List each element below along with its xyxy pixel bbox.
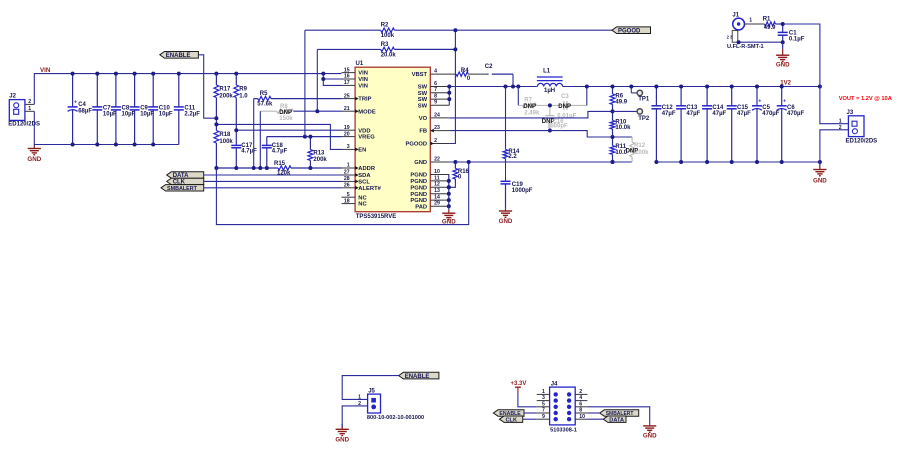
capacitor C16 DNP <box>542 105 568 130</box>
wire ADDR ground rail <box>216 167 341 169</box>
svg-text:GND: GND <box>335 437 349 444</box>
resistor R9 <box>234 74 248 131</box>
ground input GND <box>27 145 41 163</box>
svg-text:23: 23 <box>434 125 440 131</box>
svg-text:68µF: 68µF <box>78 109 92 115</box>
svg-text:16: 16 <box>344 74 350 80</box>
wire J1 shield <box>739 41 783 43</box>
svg-text:SW: SW <box>418 85 428 91</box>
svg-text:L1: L1 <box>543 68 551 74</box>
R14 to C19 link <box>505 159 507 182</box>
svg-text:VOUT = 1.2V @ 10A: VOUT = 1.2V @ 10A <box>839 96 892 102</box>
svg-text:9: 9 <box>434 100 437 106</box>
wire EN node segment <box>215 118 217 124</box>
junction TP1 joint <box>629 85 633 89</box>
svg-text:2.2µF: 2.2µF <box>184 112 200 118</box>
svg-text:ED120/2DS: ED120/2DS <box>8 121 40 127</box>
wire R5 left to ground rail <box>253 99 255 168</box>
wire VIN pin16 <box>323 78 341 80</box>
junction output gnd joints <box>654 160 822 164</box>
svg-text:GND: GND <box>442 218 456 225</box>
svg-text:ED120/2DS: ED120/2DS <box>846 138 878 144</box>
svg-text:800-10-002-10-001000: 800-10-002-10-001000 <box>367 415 424 421</box>
svg-text:R6: R6 <box>615 93 623 99</box>
wire J1 pin1 <box>745 23 765 25</box>
svg-text:C4: C4 <box>78 102 86 108</box>
capacitor C10 <box>148 74 173 145</box>
wire SDA wire <box>204 174 342 176</box>
svg-text:DATA: DATA <box>609 417 624 423</box>
power +3.3V <box>511 381 527 393</box>
junction ground rail junctions <box>214 166 312 170</box>
svg-text:2: 2 <box>434 138 437 144</box>
resistor R16 <box>453 162 470 183</box>
svg-text:17: 17 <box>344 80 350 86</box>
svg-text:TRIP: TRIP <box>358 97 371 103</box>
U1 right pin names <box>406 72 428 210</box>
svg-text:28: 28 <box>344 176 350 182</box>
svg-text:200k: 200k <box>313 157 327 163</box>
capacitor C12 <box>651 87 675 163</box>
svg-text:VREG: VREG <box>358 135 375 141</box>
wire VIN pins tap <box>323 74 341 86</box>
resistor R12 DNP <box>613 137 650 162</box>
net label SMBALERT J4 <box>600 410 639 417</box>
svg-text:20: 20 <box>344 131 350 137</box>
svg-text:100k: 100k <box>635 150 649 156</box>
svg-text:1µH: 1µH <box>544 88 555 94</box>
svg-text:27: 27 <box>344 170 350 176</box>
net label CLK <box>167 178 204 185</box>
wire left ground return <box>216 162 468 225</box>
junction VIN rail junctions <box>71 72 326 76</box>
svg-text:SCL: SCL <box>358 180 370 186</box>
svg-text:C2: C2 <box>485 64 493 70</box>
svg-text:R9: R9 <box>239 86 247 92</box>
wire output gnd down <box>819 162 821 168</box>
wire VREG line <box>267 136 342 138</box>
svg-text:49.9: 49.9 <box>615 100 627 106</box>
wire ENABLE to pin7 <box>524 412 537 414</box>
svg-text:C3: C3 <box>561 94 569 100</box>
wire J2 pin1 to ground rail <box>33 111 35 144</box>
svg-text:ALERT#: ALERT# <box>358 186 381 192</box>
svg-text:47µF: 47µF <box>686 111 700 117</box>
U1 left pin names <box>358 71 381 208</box>
svg-text:J4: J4 <box>551 381 558 387</box>
capacitor C1 <box>778 24 805 43</box>
svg-text:MODE: MODE <box>358 109 376 115</box>
wire ALERT wire <box>204 187 342 189</box>
svg-text:R3: R3 <box>381 42 389 48</box>
svg-text:4.7µF: 4.7µF <box>272 149 288 155</box>
svg-text:VDD: VDD <box>358 128 370 134</box>
svg-text:21: 21 <box>344 106 350 112</box>
svg-text:VO: VO <box>419 116 428 122</box>
wire ENABLE to J5 <box>342 376 399 400</box>
svg-text:5: 5 <box>542 401 545 407</box>
svg-text:47µF: 47µF <box>712 111 726 117</box>
wire CLK to pin9 <box>523 418 537 420</box>
wire PGOOD vertical <box>449 30 455 143</box>
svg-text:TP2: TP2 <box>638 116 650 122</box>
net label SMBALERT <box>161 185 204 192</box>
svg-text:7: 7 <box>542 408 545 414</box>
svg-text:22: 22 <box>434 156 440 162</box>
net label ENABLE J5 <box>399 372 439 380</box>
wire L1 to out <box>563 86 820 88</box>
svg-text:100k: 100k <box>381 33 395 39</box>
capacitor C6 <box>777 87 805 163</box>
inductor L1 <box>537 68 563 94</box>
junction output rail joints <box>611 85 822 89</box>
capacitor C4 <box>68 74 93 145</box>
wire VO wire <box>449 111 612 118</box>
resistor R13 <box>308 137 327 168</box>
svg-text:PGOOD: PGOOD <box>618 28 641 34</box>
U1 right pin stubs <box>430 87 449 207</box>
junction C16 joints <box>548 103 552 132</box>
svg-text:PGND: PGND <box>410 173 427 179</box>
svg-text:200k: 200k <box>219 93 233 99</box>
svg-text:NC: NC <box>358 202 367 208</box>
resistor R1 <box>763 16 783 31</box>
connector J1 UFL <box>727 12 764 50</box>
junction J1 joints <box>737 22 785 44</box>
capacitor C14 <box>702 87 726 163</box>
resistor R10 <box>610 111 631 137</box>
wire ENABLE to EN divider <box>198 55 216 118</box>
svg-text:57.6k: 57.6k <box>257 101 273 107</box>
svg-text:EN: EN <box>358 148 366 154</box>
svg-text:PGND: PGND <box>410 192 427 198</box>
svg-text:R4: R4 <box>461 68 469 74</box>
svg-text:18: 18 <box>344 198 350 204</box>
ground J4 GND <box>643 425 657 439</box>
svg-text:TPS53915RVE: TPS53915RVE <box>356 214 397 220</box>
wire SW to R14 <box>505 87 507 149</box>
svg-text:GND: GND <box>27 156 41 163</box>
svg-text:49.9: 49.9 <box>764 25 776 31</box>
wire VOUT to J3 pin1 <box>820 87 849 124</box>
resistor R6 <box>610 87 628 112</box>
wire pin6 to gnd <box>587 407 649 425</box>
connector J2 <box>8 94 40 128</box>
ground C19 GND <box>499 206 513 225</box>
svg-text:GND: GND <box>643 432 657 439</box>
svg-text:FB: FB <box>419 129 427 135</box>
svg-text:7: 7 <box>434 87 437 93</box>
capacitor C18 <box>262 137 288 168</box>
svg-text:1000pF: 1000pF <box>512 188 533 194</box>
junction PGND joints <box>447 179 451 208</box>
svg-text:DNP: DNP <box>523 104 536 110</box>
svg-text:20.0k: 20.0k <box>381 52 397 58</box>
capacitor C13 <box>676 87 700 163</box>
wire VIN rail <box>34 74 341 105</box>
svg-text:3: 3 <box>347 144 350 150</box>
text VOUT note <box>839 96 892 102</box>
svg-text:SW: SW <box>418 91 428 97</box>
svg-text:SDA: SDA <box>358 173 371 179</box>
net label ENABLE top <box>160 52 199 60</box>
svg-text:VIN: VIN <box>358 71 368 77</box>
ground J5 GND <box>335 424 349 444</box>
svg-text:GND: GND <box>499 218 513 225</box>
svg-text:26: 26 <box>344 183 350 189</box>
svg-text:GND: GND <box>776 61 790 68</box>
svg-text:2.2: 2.2 <box>508 154 517 160</box>
wire R3 line left <box>317 48 380 50</box>
svg-text:+3.3V: +3.3V <box>511 381 527 387</box>
svg-text:29: 29 <box>434 201 440 207</box>
svg-text:3: 3 <box>542 395 545 401</box>
wire pin8 to SMBALERT <box>587 412 599 414</box>
svg-text:R5: R5 <box>260 91 268 97</box>
svg-text:5: 5 <box>347 192 350 198</box>
svg-text:10.0k: 10.0k <box>615 125 631 131</box>
svg-text:10µF: 10µF <box>140 112 154 118</box>
svg-text:10µF: 10µF <box>122 112 136 118</box>
resistor R4 <box>430 68 486 82</box>
svg-text:SW: SW <box>418 103 428 109</box>
svg-text:1: 1 <box>749 18 752 24</box>
capacitor C9 <box>130 74 155 145</box>
wire SW rail <box>449 86 537 88</box>
wire SW bus vertical <box>448 87 450 106</box>
resistor R11 <box>610 137 628 162</box>
svg-text:TP1: TP1 <box>638 97 650 103</box>
wire R1 to VOUT <box>783 24 820 87</box>
junction divider joints <box>611 109 615 164</box>
svg-text:+: + <box>758 98 761 104</box>
svg-text:R18: R18 <box>219 132 231 138</box>
svg-text:1: 1 <box>28 106 31 112</box>
svg-text:1: 1 <box>358 394 361 400</box>
svg-text:PAD: PAD <box>415 204 427 210</box>
wire output gnd to J3 pin2 <box>820 130 849 162</box>
pin direction arrows <box>355 97 434 190</box>
svg-text:10µF: 10µF <box>103 112 117 118</box>
connector J3 <box>839 110 877 144</box>
net label DATA <box>167 172 204 179</box>
svg-text:U.FL-R-SMT-1: U.FL-R-SMT-1 <box>727 44 764 50</box>
connector J4 header <box>537 381 588 433</box>
svg-text:10: 10 <box>579 414 585 420</box>
svg-text:25: 25 <box>344 93 350 99</box>
wire J5 pin2 to gnd <box>342 406 367 428</box>
svg-text:4.7µF: 4.7µF <box>241 149 257 155</box>
wire C2 down to SW <box>512 74 514 86</box>
svg-text:+: + <box>783 98 786 104</box>
svg-text:DNP: DNP <box>558 104 571 110</box>
svg-text:1: 1 <box>542 389 545 395</box>
resistor R8 DNP <box>260 104 341 122</box>
resistor R17 <box>214 74 233 119</box>
wire PGND bus <box>448 175 450 207</box>
svg-text:2: 2 <box>28 99 31 105</box>
U1 left pin stubs <box>342 73 356 204</box>
junction SW node joints <box>504 85 521 89</box>
svg-text:470µF: 470µF <box>787 111 804 117</box>
op-amp U1 regulator IC TPS53915RVE body <box>355 61 430 220</box>
wire SCL wire <box>204 180 342 182</box>
junction snubber joints <box>585 85 589 89</box>
resistor R2 <box>381 23 456 40</box>
wire R2 line left <box>305 29 381 31</box>
junction VREG junctions <box>303 135 313 139</box>
svg-text:PGND: PGND <box>410 185 427 191</box>
svg-text:GND: GND <box>813 177 827 184</box>
svg-text:PGOOD: PGOOD <box>406 142 428 148</box>
resistor R3 <box>381 42 456 59</box>
wire GND pin rail <box>449 161 631 163</box>
wire R3 vertical to MODE <box>316 49 318 111</box>
svg-text:8: 8 <box>434 94 437 100</box>
resistor R15 <box>274 161 292 176</box>
svg-text:R13: R13 <box>313 151 325 157</box>
svg-text:ENABLE: ENABLE <box>166 53 191 59</box>
net label ENABLE J4 <box>493 410 524 417</box>
capacitor C17 <box>231 130 257 168</box>
svg-text:2: 2 <box>579 389 582 395</box>
svg-text:J3: J3 <box>847 110 854 116</box>
svg-text:ADDR: ADDR <box>358 166 376 172</box>
svg-text:2: 2 <box>358 401 361 407</box>
svg-text:PGND: PGND <box>410 179 427 185</box>
wire R8 left to ground rail <box>259 111 261 168</box>
svg-text:R2: R2 <box>381 23 389 29</box>
junction input ground junctions <box>71 143 156 147</box>
node VIN label <box>40 67 51 74</box>
svg-text:8: 8 <box>579 408 582 414</box>
svg-text:11: 11 <box>434 175 440 181</box>
svg-text:10µF: 10µF <box>159 112 173 118</box>
svg-text:VIN: VIN <box>358 84 368 90</box>
svg-text:SW: SW <box>418 97 428 103</box>
capacitor C2 <box>485 64 513 452</box>
wire EN wire <box>216 124 341 149</box>
svg-text:R7: R7 <box>524 98 532 104</box>
capacitor C11 <box>174 74 200 145</box>
junction GND pin joints <box>453 160 614 164</box>
svg-text:J1: J1 <box>732 12 739 18</box>
capacitor C15 <box>727 87 751 163</box>
svg-text:GND: GND <box>414 160 427 166</box>
svg-text:J2: J2 <box>9 94 16 100</box>
svg-text:15: 15 <box>344 67 350 73</box>
net label DATA J4 <box>603 416 626 423</box>
svg-text:14: 14 <box>434 195 440 201</box>
svg-text:2: 2 <box>839 125 842 131</box>
ground output GND <box>813 162 827 184</box>
wire pin10 to DATA <box>587 418 603 420</box>
svg-text:47µF: 47µF <box>737 111 751 117</box>
svg-text:470µF: 470µF <box>762 111 779 117</box>
test point TP1 <box>631 87 650 103</box>
svg-text:PGND: PGND <box>410 198 427 204</box>
svg-text:100k: 100k <box>219 139 233 145</box>
svg-text:10: 10 <box>434 169 440 175</box>
junction VIN pin taps <box>321 77 325 81</box>
junction MODE junction <box>315 109 319 113</box>
svg-text:U1: U1 <box>356 61 364 67</box>
ground IC GND <box>442 206 456 225</box>
wire R2 vertical to VREG <box>304 30 306 136</box>
capacitor C7 <box>92 74 117 145</box>
svg-text:6: 6 <box>434 81 437 87</box>
svg-text:NC: NC <box>358 195 367 201</box>
svg-text:1: 1 <box>347 163 350 169</box>
U1 right pin numbers <box>434 69 440 207</box>
svg-text:13: 13 <box>434 188 440 194</box>
resistor R18 <box>214 124 233 168</box>
wire +3.3V to pin5 <box>518 393 537 407</box>
svg-text:SMBALERT: SMBALERT <box>167 186 198 192</box>
svg-text:VBST: VBST <box>412 72 428 78</box>
junction SW bus joints <box>447 85 451 102</box>
svg-text:R15: R15 <box>274 161 286 167</box>
svg-text:VIN: VIN <box>40 67 51 74</box>
svg-text:2.49k: 2.49k <box>524 110 540 116</box>
capacitor C5 <box>752 87 780 163</box>
junction VDD node <box>234 128 238 132</box>
svg-text:+: + <box>74 100 77 106</box>
svg-text:J5: J5 <box>368 388 375 394</box>
resistor R5 <box>254 91 342 107</box>
wire VDD line <box>236 129 341 131</box>
svg-text:120k: 120k <box>277 171 291 177</box>
svg-text:4: 4 <box>579 395 582 401</box>
svg-text:12: 12 <box>434 182 440 188</box>
capacitor C8 <box>111 74 136 145</box>
connector J5 <box>358 388 424 421</box>
svg-text:9: 9 <box>542 414 545 420</box>
svg-text:24: 24 <box>434 112 440 118</box>
wire SW to L1 <box>536 86 539 88</box>
svg-text:1V2: 1V2 <box>780 80 791 86</box>
svg-text:47µF: 47µF <box>662 111 676 117</box>
junction EN node <box>214 116 218 126</box>
ground J1 GND <box>776 42 790 68</box>
wire PGOOD wire to label <box>455 29 612 31</box>
svg-text:0.1µF: 0.1µF <box>789 37 805 43</box>
net label PGOOD <box>612 27 651 35</box>
svg-text:R17: R17 <box>219 86 231 92</box>
svg-text:VIN: VIN <box>358 77 368 83</box>
wire R16 to PGND bus <box>449 183 456 187</box>
test point TP2 <box>613 109 650 122</box>
capacitor C19 <box>501 181 533 206</box>
svg-text:1: 1 <box>839 119 842 125</box>
wire output ground rail <box>656 161 820 163</box>
node 1V2 label <box>780 80 791 86</box>
net label CLK J4 <box>500 416 523 423</box>
resistor R14 <box>503 149 520 162</box>
junction PGOOD verticals <box>453 28 457 51</box>
svg-text:5103308-1: 5103308-1 <box>550 428 577 434</box>
svg-text:ENABLE: ENABLE <box>405 374 430 380</box>
svg-text:1.0: 1.0 <box>239 93 248 99</box>
svg-text:R1: R1 <box>763 16 771 22</box>
svg-text:6: 6 <box>579 401 582 407</box>
svg-text:CLK: CLK <box>506 417 518 423</box>
wire input ground rail <box>34 144 179 146</box>
svg-text:19: 19 <box>344 125 350 131</box>
resistor R7 DNP with capacitor C3 DNP snubber <box>518 87 587 120</box>
wire FB wire <box>449 131 612 137</box>
svg-text:150k: 150k <box>279 116 293 122</box>
